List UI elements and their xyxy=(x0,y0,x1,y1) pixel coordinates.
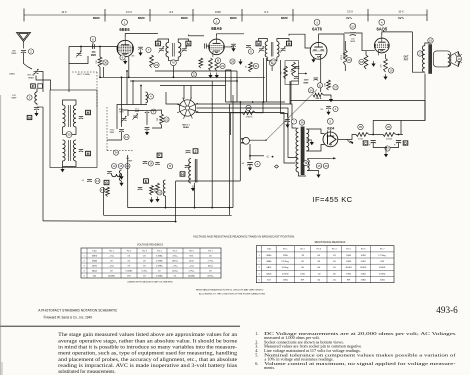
V2 cathode test circle M xyxy=(215,58,220,63)
svg-text:M: M xyxy=(257,42,260,46)
svg-text:average operative stage, rathe: average operative stage, rather than an … xyxy=(58,339,237,344)
svg-text:.1Ω: .1Ω xyxy=(333,255,337,257)
test point box H xyxy=(180,172,185,176)
antenna trimmer shield box xyxy=(69,47,88,64)
svg-text:+: + xyxy=(394,143,396,147)
svg-text:G: G xyxy=(105,181,108,185)
table frame RESISTANCE READINGS xyxy=(256,246,394,283)
filter resistor R36 xyxy=(383,133,396,137)
capacitor C11 4700 MMF xyxy=(119,130,124,132)
tuning gang section 2 variable capacitor xyxy=(33,69,39,76)
R35 callout 35 xyxy=(358,124,363,129)
svg-text:19KΩ: 19KΩ xyxy=(346,273,352,275)
bus riser x240 xyxy=(239,102,241,181)
filter caps callout 37 xyxy=(385,146,390,151)
oscillator coil group circles 12 13 14 xyxy=(112,164,117,169)
svg-text:MMF: MMF xyxy=(12,98,18,100)
rail riser from C13 box xyxy=(103,187,105,215)
wire V3 plate to C10 xyxy=(343,34,345,58)
T1 bottom callout M xyxy=(171,60,177,66)
svg-text:J: J xyxy=(195,149,197,153)
AVC node wire xyxy=(226,101,286,103)
ground under L3 xyxy=(119,181,123,186)
T2 trimmer capacitor lower xyxy=(79,150,83,152)
C14 callout 14 xyxy=(148,161,153,166)
T1 bottom wires xyxy=(169,57,179,61)
B minus horizontal y181 xyxy=(176,180,241,182)
V3 cathode ground arrow xyxy=(311,57,315,63)
capacitor C17 xyxy=(185,166,190,168)
V4 ground left xyxy=(371,61,375,67)
antenna xyxy=(17,33,31,49)
stage gain paragraph xyxy=(58,333,238,375)
T6 secondary voice coil winding xyxy=(448,54,450,66)
T5 center tap arrow xyxy=(306,139,311,141)
wire antenna coil top xyxy=(36,88,38,92)
junction dots on rails xyxy=(165,207,167,209)
wire plate circuit to T6 xyxy=(412,32,424,72)
test point box D xyxy=(403,141,408,145)
small box terminal xyxy=(38,84,43,88)
vibrator wire lower xyxy=(196,113,296,164)
coupling capacitor C10 xyxy=(350,33,356,36)
svg-text:6BA6: 6BA6 xyxy=(211,26,222,31)
power transformer T5 primary winding xyxy=(296,128,298,172)
plug wire right xyxy=(249,139,266,141)
svg-text:Volume control at maximum, no: Volume control at maximum, no signal app… xyxy=(264,361,457,367)
svg-text:(TAKEN WITH VACUUM TUBE VOLTME: (TAKEN WITH VACUUM TUBE VOLTMETER) xyxy=(128,281,173,284)
A-lead capacitor C-A1 xyxy=(247,163,253,166)
svg-text:3: 3 xyxy=(316,20,318,24)
svg-text:0V.: 0V. xyxy=(143,260,146,262)
bottom rail 2 xyxy=(104,214,232,216)
svg-text:A PHOTOFACT STANDARD NOTATION: A PHOTOFACT STANDARD NOTATION SCHEMATIC xyxy=(38,308,117,312)
R33 callout 33 xyxy=(246,105,251,110)
svg-text:33: 33 xyxy=(320,109,323,111)
scan edge artifact left xyxy=(0,95,1,375)
svg-text:MMF: MMF xyxy=(304,82,310,84)
tube V1 callout number 1 xyxy=(122,19,128,25)
svg-text:37: 37 xyxy=(334,85,338,89)
stage gain chart baseline xyxy=(24,14,427,16)
svg-text:6AT6: 6AT6 xyxy=(312,26,322,31)
svg-text:MMF: MMF xyxy=(350,41,355,43)
R18 callout 18 xyxy=(359,59,364,64)
rail riser from L4 xyxy=(194,183,196,208)
wire R6 top xyxy=(344,41,346,50)
gain chart tick xyxy=(104,9,106,22)
callout 24 pot tap xyxy=(308,88,313,93)
gain chart tick xyxy=(192,9,194,22)
svg-text:15KΩ: 15KΩ xyxy=(380,280,386,282)
AVC bus wire xyxy=(100,76,265,78)
C9 callout 9 xyxy=(151,109,156,114)
C1 callout number 2 xyxy=(28,49,33,54)
ground T2 xyxy=(60,167,64,173)
wire cap node right xyxy=(250,155,264,157)
tube V2 6BA6 IF amplifier xyxy=(209,39,225,55)
svg-text:10 X: 10 X xyxy=(61,10,67,14)
svg-text:470: 470 xyxy=(12,95,16,97)
test point box M left of T3 xyxy=(256,41,261,46)
svg-text:-9.0: -9.0 xyxy=(169,10,174,14)
switch contact dot xyxy=(265,140,266,141)
osc section wires xyxy=(121,112,123,127)
oscillator cap C-grid xyxy=(145,128,150,130)
capacitor C14 xyxy=(143,162,148,164)
V2 screen resistor R3 xyxy=(215,58,219,71)
V3 plate wire up xyxy=(319,34,344,40)
T2 trimmer capacitor upper xyxy=(79,117,83,119)
measurement notes list xyxy=(255,331,456,370)
gang link callout 34 xyxy=(113,150,118,155)
V4 cathode resistor R19 xyxy=(384,59,388,73)
V5 cathode wire to filter xyxy=(338,138,351,140)
wire R1 bottom to AVC bus xyxy=(99,67,101,77)
svg-text:30: 30 xyxy=(67,133,71,137)
dial linkage diagonal xyxy=(266,90,317,141)
svg-text:0V.: 0V. xyxy=(143,255,146,257)
bus riser x290 xyxy=(289,81,291,101)
svg-text:33K: 33K xyxy=(157,117,159,121)
T3 return wire xyxy=(271,66,273,71)
power plug P1 xyxy=(243,137,250,144)
svg-text:M: M xyxy=(187,42,190,46)
svg-text:-.9V△: -.9V△ xyxy=(172,264,178,267)
V4 grid resistor R18 xyxy=(364,55,368,69)
svg-text:2.2 Meg.: 2.2 Meg. xyxy=(281,261,289,263)
svg-text:10: 10 xyxy=(351,24,355,28)
svg-text:19: 19 xyxy=(389,69,393,73)
svg-text:2.7V△: 2.7V△ xyxy=(208,259,214,262)
hash filter capacitor C13 xyxy=(87,180,92,182)
B plus rail to output stage xyxy=(373,74,425,135)
tone capacitor C33 xyxy=(326,107,331,109)
svg-text:185V△: 185V△ xyxy=(172,259,179,262)
ground under T5 xyxy=(316,172,320,178)
tube V3 callout number 3 xyxy=(314,19,320,25)
T5 secondary HV winding xyxy=(306,129,308,151)
ground under C-A1 xyxy=(248,165,252,171)
B plus feed from T3 down xyxy=(280,60,282,114)
filter wires xyxy=(369,134,383,136)
R22 callout 22 xyxy=(191,72,196,77)
divider rule xyxy=(0,325,240,327)
svg-text:6.3VAC: 6.3VAC xyxy=(156,274,163,277)
svg-text:-46: -46 xyxy=(241,163,245,165)
oscillator section trimmer B xyxy=(132,113,138,120)
svg-text:22: 22 xyxy=(192,73,196,77)
R23 callout 23 xyxy=(154,62,159,67)
detector RC network box xyxy=(285,61,299,85)
svg-text:-.2V△: -.2V△ xyxy=(189,264,195,267)
svg-text:.1Ω: .1Ω xyxy=(333,280,337,282)
svg-text:36: 36 xyxy=(387,125,391,129)
T3 primary winding xyxy=(265,42,267,58)
T6 callout 17 xyxy=(417,51,422,56)
R16 callout 16 xyxy=(157,190,162,195)
test point box M lower xyxy=(86,151,91,155)
svg-text:-.2V△: -.2V△ xyxy=(109,264,115,267)
ground under R27 xyxy=(329,97,333,102)
bus drop to vibrator x191 xyxy=(190,86,192,100)
T5 primary bottom wire xyxy=(298,172,306,176)
svg-text:3.5 X: 3.5 X xyxy=(347,10,353,14)
C8 callout 8 xyxy=(248,49,253,54)
C13 callout 13 xyxy=(95,179,100,184)
svg-text:MMF: MMF xyxy=(12,53,18,55)
svg-text:15: 15 xyxy=(317,164,321,168)
svg-text:0V.: 0V. xyxy=(128,265,131,267)
diamond contact xyxy=(275,165,279,168)
svg-text:22KΩ: 22KΩ xyxy=(283,255,289,257)
T2 primary winding xyxy=(63,105,66,127)
T5 secondary wires to V5 plates xyxy=(306,129,324,134)
tube V1 6BE6 converter xyxy=(117,40,133,56)
svg-text:©Howard W. Sams & Co., Inc. 19: ©Howard W. Sams & Co., Inc. 1949 xyxy=(43,316,92,320)
bus drop to osc box x133 xyxy=(132,81,134,105)
svg-text:450KΩ: 450KΩ xyxy=(346,267,353,269)
svg-text:.1Ω: .1Ω xyxy=(333,267,337,269)
svg-text:IF=455 KC: IF=455 KC xyxy=(312,195,352,204)
svg-text:6.3V△: 6.3V△ xyxy=(142,269,148,272)
T1 top wires xyxy=(158,39,169,42)
gain chart tick xyxy=(367,9,369,22)
T3 primary trimmer xyxy=(258,46,264,53)
svg-text:5.9V△: 5.9V△ xyxy=(189,269,195,272)
osc feedback cap C16 xyxy=(186,151,191,153)
test point box G xyxy=(104,180,109,184)
svg-text:MMF: MMF xyxy=(135,111,140,113)
svg-text:≈C: ≈C xyxy=(266,155,269,158)
svg-text:GANG: GANG xyxy=(9,72,15,75)
V2 grid return resistor R22 xyxy=(199,58,203,68)
svg-text:M: M xyxy=(156,42,159,46)
svg-text:0V.: 0V. xyxy=(174,275,177,277)
R27 callout 37 xyxy=(333,85,338,90)
svg-text:470Ω: 470Ω xyxy=(358,139,363,141)
svg-text:0V.: 0V. xyxy=(209,255,212,257)
T2 mid callout 30 xyxy=(66,132,72,138)
svg-text:6.3VAC: 6.3VAC xyxy=(126,269,133,272)
T1 core lines xyxy=(172,43,174,57)
antenna coil L1 xyxy=(35,92,37,104)
svg-text:2: 2 xyxy=(216,19,218,23)
R17b callout 17 xyxy=(100,188,105,193)
svg-text:RESISTANCE READINGS: RESISTANCE READINGS xyxy=(315,240,346,244)
C7 callout 7 xyxy=(146,47,151,52)
svg-text:reading is impractical. AVC is: reading is impractical. AVC is made inop… xyxy=(58,364,237,369)
test point box J xyxy=(193,149,198,153)
ground near R28 xyxy=(238,59,242,65)
svg-text:INF.: INF. xyxy=(301,280,305,282)
svg-text:20KΩ: 20KΩ xyxy=(346,261,352,263)
gain chart tick xyxy=(241,9,243,22)
svg-text:ments.: ments. xyxy=(264,365,275,370)
vibrator pin xyxy=(184,110,187,119)
arrow ground R17 xyxy=(149,197,153,203)
svg-text:1K: 1K xyxy=(246,65,248,68)
bus drop to osc box x141 xyxy=(140,86,142,105)
svg-text:1500: 1500 xyxy=(304,80,310,82)
test point box M left of T1 xyxy=(155,41,160,46)
T3 bottom wires xyxy=(267,57,277,61)
T1 primary winding xyxy=(166,42,169,57)
table frame VOLTAGE READINGS xyxy=(81,248,221,278)
wire C10 to V4 grid xyxy=(362,34,375,51)
svg-text:10KΩ: 10KΩ xyxy=(361,255,367,257)
svg-text:60V△: 60V△ xyxy=(208,264,214,267)
V4 cathode ground xyxy=(383,74,387,80)
svg-text:17: 17 xyxy=(418,52,422,56)
svg-text:M: M xyxy=(87,152,90,156)
wire gang to antenna coil xyxy=(39,72,44,81)
svg-text:21V△: 21V△ xyxy=(172,254,178,257)
resistor R17b below box G xyxy=(106,187,110,197)
svg-text:34: 34 xyxy=(114,151,118,155)
svg-text:5.: 5. xyxy=(255,352,258,357)
capacitor C12 left xyxy=(107,172,112,174)
V4 plate wire to output transformer xyxy=(382,32,413,36)
oscillator box outline xyxy=(117,105,147,130)
svg-text:220V△: 220V△ xyxy=(207,274,214,277)
svg-text:35: 35 xyxy=(359,125,363,129)
svg-text:4V∿: 4V∿ xyxy=(346,16,353,20)
vibrator pin xyxy=(177,109,185,113)
C33 callout 4 xyxy=(333,106,338,111)
ground below V1 xyxy=(123,60,127,65)
vibrator pin xyxy=(177,104,186,107)
gain chart tick xyxy=(149,9,151,22)
R19 callout 19 xyxy=(388,68,393,73)
svg-text:10M: 10M xyxy=(325,83,327,87)
svg-text:+: + xyxy=(369,143,371,147)
T2 lower core lines xyxy=(67,140,69,161)
svg-text:6BE6: 6BE6 xyxy=(119,27,130,32)
B plus node riser xyxy=(400,121,402,135)
svg-text:substituted for measurements.: substituted for measurements. xyxy=(58,370,115,375)
C31 callout 31 xyxy=(317,83,322,88)
V2 cathode ground xyxy=(208,73,212,79)
ground under L5 xyxy=(155,197,159,203)
svg-text:6AQ5: 6AQ5 xyxy=(92,269,98,272)
rail riser x127 xyxy=(127,155,129,208)
bus drop to vibrator x184 xyxy=(183,86,185,100)
svg-text:145V.: 145V. xyxy=(189,260,194,262)
filter common ground xyxy=(384,152,388,158)
svg-text:MMF: MMF xyxy=(128,161,133,163)
svg-text:B: B xyxy=(169,164,171,168)
svg-text:11: 11 xyxy=(125,135,128,139)
wire V2 to bypass xyxy=(224,46,233,47)
capacitor C15 xyxy=(155,163,159,165)
vibrator pin xyxy=(190,103,198,107)
svg-text:1.: 1. xyxy=(255,331,258,336)
V5 callout number 5 xyxy=(327,118,333,124)
C7b ground xyxy=(285,123,289,128)
svg-text:6.3VAC: 6.3VAC xyxy=(156,259,163,262)
vibrator pin xyxy=(188,97,191,106)
filter caps common wire xyxy=(373,143,398,148)
svg-text:MMC: MMC xyxy=(138,16,146,20)
vibrator wire left xyxy=(166,92,180,104)
svg-text:REAR: REAR xyxy=(183,126,189,129)
wire cathode to filter resistor xyxy=(351,135,357,140)
rail riser x233 xyxy=(232,95,234,208)
V1 grid resistor R1 xyxy=(98,57,102,67)
svg-text:470: 470 xyxy=(381,63,383,67)
T3 top wires xyxy=(259,39,268,42)
svg-text:.1Ω: .1Ω xyxy=(317,273,321,275)
heater callouts 15 40 xyxy=(316,163,321,168)
svg-text:MMC: MMC xyxy=(93,16,101,20)
svg-text:20KΩ: 20KΩ xyxy=(346,255,352,257)
test point box M right of T1 xyxy=(186,41,191,46)
svg-text:AG: AG xyxy=(132,55,135,58)
svg-text:0V.: 0V. xyxy=(128,260,131,262)
T2 secondary winding upper xyxy=(73,105,76,127)
grid series capacitor xyxy=(93,44,95,49)
cap ground arrow xyxy=(231,47,235,52)
T3 bottom callout M xyxy=(269,60,275,66)
svg-text:31: 31 xyxy=(318,83,322,87)
svg-text:SECT. 2 REAR: SECT. 2 REAR xyxy=(77,73,90,76)
vibrator wire upper xyxy=(196,104,297,128)
volume control loop wires xyxy=(226,70,238,102)
svg-text:38: 38 xyxy=(300,121,304,125)
svg-text:470 K: 470 K xyxy=(341,54,343,60)
test point box E xyxy=(144,179,149,183)
cathode branch arrow xyxy=(349,141,353,145)
svg-text:27: 27 xyxy=(272,60,276,64)
V1 plate wire to T1 xyxy=(125,34,158,38)
T1 secondary trimmer xyxy=(181,46,187,53)
svg-text:470KΩ: 470KΩ xyxy=(379,273,386,275)
svg-text:6X4: 6X4 xyxy=(327,125,335,130)
svg-text:-.7V△: -.7V△ xyxy=(109,254,115,257)
resistor R16 vertical xyxy=(156,183,160,194)
ground osc cap xyxy=(145,130,149,135)
callout 39 left xyxy=(303,161,308,166)
svg-text:0V.: 0V. xyxy=(158,270,161,272)
svg-text:0V.: 0V. xyxy=(110,270,113,272)
T3 secondary trimmer xyxy=(280,46,286,53)
svg-text:6.3VAC: 6.3VAC xyxy=(156,254,163,257)
V1 grid wire xyxy=(69,46,117,48)
speaker cone xyxy=(451,52,458,67)
long verticals under V3 bias xyxy=(225,70,227,102)
R36 callout 36 xyxy=(386,124,391,129)
svg-text:0V.: 0V. xyxy=(143,275,146,277)
filter resistor R35 xyxy=(356,133,369,137)
T2 lower primary winding xyxy=(63,140,66,161)
V3 cathode line down xyxy=(320,55,322,92)
svg-text:30: 30 xyxy=(104,61,108,65)
L4 core line xyxy=(194,159,196,183)
B plus rail upper distribution xyxy=(290,101,425,121)
speaker callout 19 xyxy=(456,56,461,61)
svg-text:6AQ5: 6AQ5 xyxy=(376,26,387,31)
trimmer capacitor C9 xyxy=(145,111,150,113)
vibrator pin xyxy=(188,110,192,118)
test point box N xyxy=(27,115,32,119)
svg-text:493-6: 493-6 xyxy=(436,305,458,315)
svg-text:3 MEG: 3 MEG xyxy=(246,116,253,118)
svg-text:6AQ5: 6AQ5 xyxy=(266,272,272,275)
R6 callout 26 xyxy=(346,57,351,62)
T2 internal connecting wires xyxy=(63,100,77,105)
heater wire with arrow xyxy=(307,157,330,159)
